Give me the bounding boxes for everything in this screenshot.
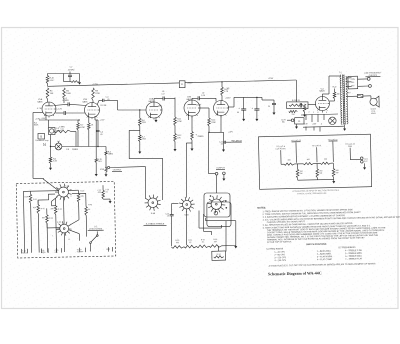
- wire V5 plate to T2: [322, 76, 340, 97]
- tube V3A: [146, 102, 162, 120]
- label s2r3: [51, 208, 55, 210]
- tube V3B: [184, 100, 200, 118]
- wire jack1 out: [110, 167, 146, 199]
- capacitor C14: [252, 107, 260, 110]
- wire R4 to V2 plate: [92, 101, 94, 104]
- label 117VAC: [281, 119, 286, 123]
- chart hdr1: [291, 140, 301, 142]
- chart res h2: [303, 162, 313, 164]
- terminal jack2 L: [215, 172, 218, 175]
- box pilot: [295, 118, 304, 124]
- svg-text:250: 250: [324, 159, 327, 161]
- label bt4: [77, 249, 84, 253]
- wire V3A plate: [154, 99, 163, 103]
- wire tap end: [138, 142, 141, 154]
- capacitor C13 stem: [243, 97, 245, 108]
- svg-text:20: 20: [268, 106, 270, 108]
- svg-text:S2 TREBLE/BASS: S2 TREBLE/BASS: [338, 246, 356, 249]
- box R16: [287, 102, 308, 109]
- chart caption: [292, 189, 339, 196]
- svg-text:+2.2V: +2.2V: [100, 120, 106, 122]
- speaker SP1: [370, 96, 379, 107]
- svg-text:6AV6: 6AV6: [187, 98, 193, 101]
- chart wires down: [281, 141, 351, 164]
- svg-text:25MFD: 25MFD: [72, 149, 79, 151]
- wire spkr line: [347, 95, 358, 97]
- label R7: [59, 126, 65, 130]
- capacitor C6: [163, 97, 175, 101]
- label s2r1: [24, 196, 29, 198]
- resistor R2: [46, 88, 49, 99]
- ground C14: [255, 110, 258, 121]
- capacitor C16: [300, 103, 301, 108]
- svg-text:C-8: C-8: [66, 149, 69, 151]
- svg-text:25MFD: 25MFD: [198, 136, 205, 138]
- label pin volts: [304, 112, 327, 126]
- label V3A: [149, 98, 155, 103]
- svg-text:6AV6: 6AV6: [38, 101, 44, 104]
- tube V1A: [42, 102, 56, 118]
- resistor R7 horizontal: [54, 130, 71, 133]
- resistor R14: [208, 118, 211, 126]
- svg-text:1.5K: 1.5K: [50, 80, 55, 82]
- wire T2 primary top: [339, 75, 341, 76]
- wire V1A grid: [33, 112, 43, 114]
- svg-text:.02: .02: [202, 93, 205, 95]
- capacitor C4: [97, 130, 100, 137]
- label grid R: [37, 108, 42, 110]
- wire top loop: [48, 74, 80, 82]
- wire lamp stem: [58, 141, 60, 143]
- resistor row R33: [209, 245, 222, 248]
- wire cluster rail: [262, 97, 274, 100]
- label V5: [319, 88, 325, 92]
- svg-text:R-9 1M: R-9 1M: [101, 105, 107, 107]
- label chresv1: [300, 171, 303, 175]
- capacitor C5 coupling: [103, 99, 146, 110]
- wire sun3 weave b: [204, 214, 212, 235]
- capacitor C14 stem: [256, 97, 257, 109]
- svg-text:.05: .05: [167, 216, 169, 218]
- svg-text:6AQ5: 6AQ5: [319, 90, 325, 93]
- label R10a: [142, 120, 147, 124]
- label R16: [292, 100, 301, 102]
- label C15: [268, 106, 270, 108]
- ground V3B: [191, 140, 194, 151]
- svg-text:.05: .05: [100, 134, 103, 136]
- chart ground: [332, 179, 335, 183]
- svg-text:100K: 100K: [66, 93, 71, 95]
- wire s3: [90, 231, 97, 251]
- svg-text:S1 FREQ RANGE: S1 FREQ RANGE: [266, 247, 284, 250]
- svg-text:.05: .05: [220, 144, 222, 146]
- resistor S2 r1: [29, 191, 32, 203]
- svg-text:.005: .005: [97, 192, 100, 194]
- ground C13: [242, 110, 245, 121]
- svg-text:100: 100: [337, 94, 340, 96]
- resistor R4: [92, 88, 95, 101]
- resistor R5: [77, 123, 80, 130]
- label R4: [95, 91, 100, 96]
- svg-text:7: 7: [309, 112, 310, 114]
- svg-text:C-6: C-6: [61, 129, 64, 131]
- label C7a: [68, 67, 75, 72]
- wire S1B feed: [186, 143, 192, 198]
- label box misc10: [51, 187, 72, 241]
- chart res v1: [296, 164, 299, 180]
- label spkr: [370, 109, 376, 116]
- resistor R6: [88, 123, 91, 130]
- resistor R11: [174, 117, 177, 126]
- label s2r5: [80, 196, 84, 198]
- wire box int 1: [30, 190, 58, 193]
- resistor S2 r7: [102, 185, 105, 199]
- svg-text:F1: F1: [181, 84, 183, 86]
- pin stubs: [306, 114, 324, 122]
- wire jack1 drop: [105, 147, 107, 152]
- capacitor C7a: [68, 72, 72, 82]
- svg-text:R-45: R-45: [80, 190, 84, 192]
- svg-text:0: 0: [321, 123, 322, 125]
- wire V2 plate out: [97, 100, 102, 104]
- label box misc1: [65, 184, 70, 187]
- wire loop bottom: [64, 74, 72, 82]
- resistor R9: [49, 157, 52, 163]
- label bt2: [41, 250, 47, 254]
- capacitor C15: [272, 100, 276, 113]
- label +47V: [158, 104, 234, 133]
- capacitor C7: [192, 96, 216, 101]
- label C8: [66, 149, 79, 151]
- label bt1: [22, 249, 28, 254]
- wire B+ bus left: [48, 83, 180, 86]
- wire tap wrap: [129, 130, 163, 200]
- wire check term 1: [357, 78, 367, 80]
- wire box R34 right: [225, 221, 227, 252]
- arrow terminal 1: [95, 174, 98, 176]
- label R17: [292, 114, 295, 116]
- wire box int 3: [63, 197, 66, 223]
- switch S1A: [145, 195, 161, 211]
- resistor R12: [174, 134, 177, 142]
- label R6: [91, 125, 94, 127]
- label V1A pin volts: [57, 109, 63, 111]
- chart res h1: [284, 163, 294, 165]
- svg-text:+47V: +47V: [228, 132, 233, 134]
- svg-text:470K: 470K: [80, 127, 85, 129]
- svg-text:2: 2: [70, 196, 71, 198]
- wire plate chain: [174, 98, 176, 118]
- resistor row R32: [196, 245, 209, 248]
- svg-text:S-1 BASS /TREBLE: S-1 BASS /TREBLE: [146, 223, 165, 226]
- capacitor C17: [165, 213, 173, 218]
- chart out wire: [350, 158, 360, 160]
- wafer outline 2: [207, 202, 231, 227]
- svg-text:3: 3: [322, 112, 323, 114]
- label C4: [100, 132, 103, 136]
- svg-text:6AV6: 6AV6: [149, 100, 155, 103]
- label box misc3: [33, 199, 37, 201]
- label chres1: [287, 159, 290, 161]
- label R10b: [142, 136, 147, 140]
- wire C4 bottom: [97, 136, 98, 147]
- tube V2 (V1B): [85, 103, 100, 120]
- label C5: [101, 97, 110, 107]
- chart rail: [281, 163, 284, 165]
- svg-text:+1.0V: +1.0V: [41, 118, 47, 120]
- svg-text:AT THE TOP OF SWITCH.: AT THE TOP OF SWITCH.: [267, 240, 292, 244]
- svg-text:5W: 5W: [300, 173, 303, 175]
- label line freq: [364, 72, 382, 77]
- resistor S2 r4: [45, 208, 49, 252]
- label C13: [237, 112, 239, 114]
- svg-text:1 MFD: 1 MFD: [59, 126, 65, 128]
- svg-text:300: 300: [176, 242, 179, 244]
- wire box int 2: [31, 203, 32, 252]
- svg-text:+260V: +260V: [187, 83, 193, 85]
- label s2r4: [42, 217, 46, 219]
- wire taps: [346, 78, 351, 87]
- label R13 plus: [196, 134, 205, 138]
- wire box sun5 L2: [56, 229, 60, 231]
- ground T2: [343, 128, 346, 130]
- label S2: [88, 226, 104, 231]
- wire box int 6: [69, 230, 79, 241]
- resistor S2 r3: [54, 198, 58, 252]
- label bus volts: [187, 78, 274, 85]
- label R5: [80, 125, 85, 129]
- label chres3: [324, 159, 327, 161]
- svg-text:470K: 470K: [177, 121, 182, 123]
- label V2: [83, 99, 89, 103]
- wire tone tap: [139, 109, 140, 118]
- label rail b: [34, 122, 39, 126]
- notes block: [257, 205, 400, 268]
- svg-text:400: 400: [287, 159, 290, 161]
- wire box loop R: [72, 193, 86, 201]
- svg-text:SW: SW: [55, 252, 58, 254]
- caption title: [268, 270, 322, 276]
- chart out terms: [360, 157, 363, 163]
- svg-text:.01: .01: [105, 191, 108, 193]
- wire heater row 2: [303, 126, 344, 127]
- wire S1B left spoke: [172, 204, 179, 213]
- chart out ground: [363, 163, 366, 169]
- label R1: [50, 78, 55, 83]
- lamp L2: [55, 143, 62, 150]
- svg-text:T-2: T-2: [339, 72, 342, 74]
- label R12: [177, 135, 181, 139]
- svg-text:4.7 M: 4.7 M: [37, 108, 42, 110]
- wire V4 cathode: [209, 115, 224, 132]
- svg-text:+275V: +275V: [92, 84, 99, 86]
- svg-text:4: 4: [326, 112, 327, 114]
- label box misc2: [57, 222, 62, 224]
- wire V5 grid: [296, 102, 316, 105]
- resistor R20 on drop: [95, 159, 97, 163]
- svg-text:150: 150: [292, 114, 295, 116]
- svg-text:1MEG: 1MEG: [108, 154, 114, 156]
- svg-text:7: 7: [53, 187, 54, 189]
- wire R14 ends: [200, 108, 210, 133]
- svg-text:LUG PLATE: LUG PLATE: [276, 147, 287, 150]
- svg-text:1: 1: [52, 235, 53, 237]
- label S1 main: [144, 223, 167, 226]
- wire R15 to V4: [221, 96, 223, 102]
- label box misc8: [88, 204, 92, 206]
- label C11: [219, 141, 223, 145]
- wire feedback rail: [33, 113, 44, 179]
- label chres2: [307, 159, 310, 161]
- label R21: [108, 152, 114, 156]
- label R2: [50, 91, 54, 96]
- chart wire h3: [331, 162, 334, 164]
- svg-text:3—FLAT NORM.: 3—FLAT NORM.: [317, 255, 333, 258]
- label +2.2V: [100, 120, 106, 122]
- svg-text:1—BASS MAX.: 1—BASS MAX.: [317, 250, 332, 253]
- wire bus corner: [295, 80, 297, 102]
- svg-text:220K: 220K: [211, 122, 216, 124]
- capacitor C11 output: [224, 141, 232, 144]
- wire C3 drop: [50, 135, 51, 158]
- label output jack1: [112, 170, 122, 172]
- wire V2 cathode pins: [89, 116, 98, 159]
- svg-text:R-43: R-43: [58, 209, 62, 211]
- label V4: [227, 88, 230, 90]
- resistor R13 cathode: [191, 132, 194, 141]
- svg-text:C-9: C-9: [162, 93, 165, 95]
- ground row: [234, 246, 237, 248]
- resistor row R31: [184, 245, 197, 248]
- fuse F1: [357, 94, 363, 97]
- label box misc9: [97, 190, 101, 194]
- svg-text:R-20 1.2K: R-20 1.2K: [292, 100, 301, 102]
- wire R5 top: [78, 120, 80, 123]
- chart lbl right: [345, 144, 355, 149]
- resistor R22: [105, 169, 107, 173]
- wire jack1 gnd: [105, 172, 107, 174]
- resistor R34 inside: [214, 256, 224, 258]
- label +1.0V: [41, 118, 47, 120]
- wire box R34 link: [217, 246, 219, 251]
- label box misc4: [41, 208, 45, 210]
- svg-text:+100V: +100V: [196, 104, 202, 106]
- resistor R1: [46, 76, 49, 84]
- label R19b: [333, 86, 337, 88]
- wire jack drop: [209, 132, 216, 173]
- svg-text:YEL: YEL: [351, 82, 354, 84]
- label to lug: [231, 140, 242, 142]
- small box on bus: [179, 81, 185, 88]
- ground V3A cathode: [155, 117, 158, 122]
- wire jack1 mid: [105, 155, 106, 168]
- svg-text:TO AMP: TO AMP: [77, 250, 84, 253]
- label tap blk: [347, 92, 351, 94]
- wire R5 R6 bottom: [78, 130, 89, 147]
- chart lbl left: [276, 146, 287, 151]
- wire sun3 weave a: [199, 211, 221, 229]
- label box misc7: [80, 190, 84, 192]
- capacitor C2 upper: [54, 102, 87, 106]
- wire heater row: [301, 114, 338, 115]
- label T2: [339, 72, 342, 74]
- label R32: [201, 239, 205, 243]
- svg-text:6AV6: 6AV6: [83, 100, 89, 103]
- resistor R17: [289, 110, 298, 112]
- capacitor C3 boxed: [49, 128, 56, 135]
- svg-text:2: 2: [304, 112, 305, 114]
- switch S1B: [179, 197, 195, 213]
- wire sun2 down: [185, 211, 187, 245]
- svg-text:Feedback loop: Feedback loop: [36, 140, 50, 142]
- svg-text:1: 1: [313, 112, 314, 114]
- dashed enclosure: [16, 181, 116, 258]
- label C2: [62, 98, 69, 102]
- chart lbl mid: [312, 145, 322, 147]
- svg-text:2—BASS MED.: 2—BASS MED.: [317, 252, 332, 255]
- label +275V: [92, 84, 99, 86]
- svg-text:4—240 CPS: 4—240 CPS: [274, 260, 286, 262]
- resistor R19 screen: [329, 89, 336, 102]
- wire box int 5: [23, 191, 31, 253]
- svg-text:400: 400: [307, 159, 310, 161]
- svg-text:R-41: R-41: [33, 199, 37, 201]
- svg-text:C-10: C-10: [201, 95, 205, 97]
- box R34: [212, 251, 226, 260]
- svg-text:R-34: R-34: [217, 254, 221, 256]
- pin stubs 2: [306, 127, 320, 132]
- svg-text:R-46: R-46: [88, 204, 92, 206]
- label s2c1: [105, 189, 109, 193]
- label s2r2: [33, 207, 37, 209]
- label V1A: [38, 98, 44, 103]
- label S1B: [184, 214, 189, 216]
- svg-text:820K: 820K: [34, 125, 39, 127]
- terminal check 1: [367, 77, 370, 80]
- chart wire h1: [294, 163, 303, 165]
- resistor row R30: [171, 245, 184, 248]
- svg-text:.05: .05: [162, 91, 165, 93]
- label C6: [162, 91, 165, 95]
- svg-text:TO LUG #1: TO LUG #1: [312, 145, 322, 147]
- svg-text:40: 40: [237, 112, 239, 114]
- transformer T2: [340, 74, 348, 124]
- svg-text:7—TREBLE FLAT: 7—TREBLE FLAT: [345, 257, 363, 260]
- label chart out: [364, 159, 369, 163]
- switch S3 lever: [89, 235, 98, 244]
- label bt5: [106, 249, 111, 251]
- wire bus right: [185, 80, 296, 83]
- arrow down junction: [78, 82, 81, 84]
- terminal check 2: [369, 85, 372, 88]
- wire box loop L2: [52, 197, 58, 206]
- resistor R18: [303, 104, 306, 112]
- svg-text:NOTES:: NOTES:: [257, 207, 266, 209]
- resistor loop damp: [71, 81, 80, 83]
- arrow terminal 2: [105, 174, 108, 176]
- wire lamp right: [62, 146, 106, 148]
- svg-text:11: 11: [68, 239, 70, 241]
- label S1A: [151, 212, 156, 215]
- switch S2A: [55, 184, 72, 201]
- chart res h3: [320, 162, 330, 164]
- resistor R16 inside: [289, 104, 303, 106]
- chart bottom rail: [298, 178, 334, 181]
- terminal S1C sub: [210, 195, 227, 215]
- lamp PL2: [329, 117, 336, 124]
- ground jack2: [222, 175, 225, 181]
- wire chain mid: [174, 126, 176, 134]
